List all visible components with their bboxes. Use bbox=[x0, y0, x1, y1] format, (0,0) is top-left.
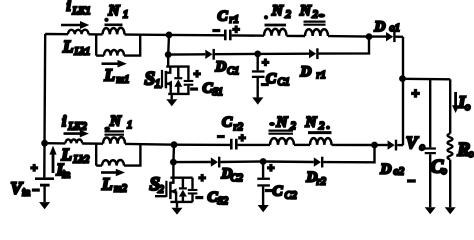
wire node2 to DC2 bbox=[173, 161, 210, 164]
junction node before Do2 bbox=[371, 142, 378, 149]
wire node to Do2 bbox=[375, 144, 388, 146]
svg-text:2: 2 bbox=[286, 10, 292, 21]
svg-text:o: o bbox=[420, 142, 425, 153]
svg-text:−: − bbox=[266, 183, 273, 197]
svg-text:+: + bbox=[199, 170, 206, 184]
core bar N2 first phase1 bbox=[265, 24, 287, 27]
wire phase2 main bus left segment bbox=[45, 142, 66, 145]
svg-text:o2: o2 bbox=[394, 167, 405, 178]
svg-text:+: + bbox=[194, 66, 201, 80]
svg-text:C: C bbox=[222, 114, 233, 130]
svg-text:N: N bbox=[271, 3, 284, 19]
capacitor C_C2 plate bottom bbox=[257, 184, 270, 186]
wire node1 to Cr1 bbox=[169, 34, 224, 37]
inductor L_LK2 bbox=[65, 139, 82, 143]
switch S2: wire node2 down to top rail bbox=[172, 162, 174, 178]
diode D_o2 bbox=[388, 140, 395, 149]
junction node2 phase1 bbox=[165, 51, 172, 58]
core bar lower N1 phase2 bbox=[105, 134, 125, 136]
ground below C_o bbox=[425, 207, 436, 214]
transistor S1 source lead with arrow bbox=[166, 82, 171, 84]
svg-text:−: − bbox=[191, 82, 198, 96]
transistor S1 gate lead bbox=[154, 86, 162, 88]
svg-text:C2: C2 bbox=[285, 190, 298, 201]
junction node1 phase1 bbox=[166, 32, 173, 39]
svg-text:L: L bbox=[101, 174, 112, 193]
svg-text:Lk1: Lk1 bbox=[74, 46, 91, 57]
svg-text:+: + bbox=[412, 87, 420, 102]
transistor S1 gate bar bbox=[161, 70, 163, 88]
core bar lower N2 first phase2 bbox=[269, 133, 294, 135]
svg-text:−: − bbox=[218, 130, 225, 144]
winding N2 second phase2 bbox=[310, 138, 332, 145]
transistor S2 gate bar bbox=[165, 181, 167, 197]
svg-text:2: 2 bbox=[291, 121, 297, 132]
transistor S2 source lead with arrow bbox=[170, 190, 176, 192]
wire Lm2 to loop right vertical bbox=[124, 144, 140, 166]
svg-text:S: S bbox=[145, 68, 156, 89]
capacitor C_S2 bbox=[191, 178, 193, 189]
polarity dot N2 second phase2 bbox=[326, 125, 330, 129]
capacitor C_r1 plate right bbox=[229, 30, 232, 41]
core bar N1 phase1 bbox=[105, 23, 123, 26]
svg-text:+: + bbox=[268, 160, 275, 174]
svg-text:+: + bbox=[31, 160, 38, 174]
switch S1: wire node2 down to top rail bbox=[167, 55, 169, 67]
core bar upper N2 second phase1 bbox=[304, 21, 326, 23]
wire Lm2 bottom branch bbox=[96, 164, 102, 166]
ground below V_in bbox=[39, 202, 50, 209]
svg-text:V: V bbox=[406, 133, 419, 152]
svg-text:i: i bbox=[62, 114, 67, 130]
svg-text:2: 2 bbox=[319, 121, 325, 132]
core bar upper N1 phase2 bbox=[105, 130, 125, 132]
wire node to Do1 bbox=[369, 35, 386, 37]
svg-text:LK1: LK1 bbox=[72, 6, 91, 17]
wire L_LK2 to transformer loop bbox=[82, 142, 103, 145]
capacitor C_C1 stem top bbox=[257, 54, 259, 70]
transistor S2 channel bar bbox=[169, 182, 172, 199]
wire node1 to Cr2 bbox=[174, 143, 230, 146]
svg-text:+: + bbox=[239, 131, 246, 145]
capacitor C_o plate bottom bbox=[425, 152, 436, 154]
svg-text:o: o bbox=[465, 102, 470, 113]
svg-text:D: D bbox=[300, 64, 312, 80]
junction node1 phase2 bbox=[171, 141, 178, 148]
winding N2 first phase2 bbox=[270, 138, 294, 145]
wire Vin to ground bbox=[43, 187, 45, 203]
label L_m2 with arrow bbox=[101, 171, 116, 174]
wire Lm1 to loop right vertical bbox=[124, 35, 140, 56]
wire CC2 node to Dr2 bbox=[263, 160, 314, 163]
diode D_o1 bbox=[386, 32, 393, 41]
wire Lm1 bottom branch bbox=[96, 54, 104, 56]
junction node input tap phase2 bbox=[41, 140, 48, 147]
capacitor C_r1 plate left bbox=[224, 30, 227, 41]
body diode of S2 bbox=[182, 178, 184, 190]
wire Cr1 to N2a phase1 bbox=[232, 34, 264, 37]
transistor S2 gate lead bbox=[155, 195, 166, 197]
svg-text:D: D bbox=[215, 59, 227, 75]
wire R_o lower lead bbox=[449, 160, 451, 208]
winding N1 phase2 bbox=[103, 137, 125, 144]
wire Dr2 to riser bbox=[323, 145, 374, 162]
svg-text:−: − bbox=[196, 191, 203, 205]
svg-text:−: − bbox=[408, 174, 416, 189]
transistor S2 drain lead bbox=[170, 178, 173, 183]
winding N2 first phase1 bbox=[264, 29, 287, 36]
core bar lower N2 second phase1 bbox=[304, 24, 326, 26]
wire N1 to node1 phase2 bbox=[125, 143, 174, 146]
svg-text:m1: m1 bbox=[117, 75, 130, 86]
svg-text:N: N bbox=[108, 3, 121, 19]
capacitor C_C1 plate top bbox=[252, 70, 265, 72]
wire CC1 node to Dr1 bbox=[258, 53, 309, 56]
svg-text:Lk2: Lk2 bbox=[73, 154, 91, 165]
ground below C_C1 bbox=[252, 97, 263, 104]
svg-text:N: N bbox=[276, 114, 289, 130]
svg-text:1: 1 bbox=[123, 9, 128, 20]
wire Dr1 to riser bbox=[319, 37, 369, 54]
svg-text:C2: C2 bbox=[231, 173, 244, 184]
diode D_r1 bbox=[309, 49, 316, 58]
transistor S1 channel bar bbox=[165, 71, 168, 88]
svg-text:L: L bbox=[62, 37, 73, 56]
svg-text:L: L bbox=[104, 65, 115, 84]
capacitor C_o plate top bbox=[425, 147, 436, 149]
winding N1 phase1 bbox=[103, 28, 125, 35]
junction node before Do1 bbox=[366, 33, 373, 40]
core bar upper N2 first phase2 bbox=[269, 130, 294, 132]
svg-text:−: − bbox=[213, 24, 220, 38]
label L_m1 with arrow bbox=[102, 62, 118, 65]
wire loop left vertical (Lm2 branch) bbox=[95, 144, 97, 166]
wire node2 to DC1 bbox=[168, 53, 205, 56]
svg-text:C1: C1 bbox=[278, 77, 290, 88]
svg-text:N: N bbox=[299, 3, 312, 19]
wire C_o upper lead bbox=[429, 79, 431, 147]
svg-text:1: 1 bbox=[155, 79, 160, 90]
capacitor C_r2 plate right bbox=[235, 139, 238, 150]
wire DC1 to CC1 node bbox=[215, 53, 258, 56]
switch S1 top rail bbox=[166, 65, 189, 67]
svg-text:N: N bbox=[109, 113, 122, 129]
current arrow I_in bbox=[52, 153, 55, 174]
switch S2 top rail bbox=[170, 176, 192, 178]
svg-text:r2: r2 bbox=[317, 177, 327, 188]
ground below R_o bbox=[445, 207, 456, 214]
polarity dot N2 first phase1 bbox=[264, 15, 268, 19]
svg-text:S2: S2 bbox=[218, 196, 229, 207]
diode D_C1 bbox=[205, 50, 212, 59]
polarity dot N1 phase2 bbox=[104, 127, 110, 131]
capacitor C_S1 bbox=[187, 67, 189, 80]
capacitor C_r2 plate left bbox=[230, 139, 233, 150]
current arrow I_o bbox=[454, 92, 457, 106]
svg-text:S1: S1 bbox=[213, 87, 224, 98]
polarity dot N1 phase1 bbox=[104, 18, 108, 22]
svg-text:o1: o1 bbox=[390, 23, 401, 34]
wire node1 down to node2 phase1 bbox=[167, 35, 170, 55]
inductor L_LK1 bbox=[68, 30, 89, 34]
svg-text:2: 2 bbox=[159, 185, 165, 196]
wire N2b to Do2 node bbox=[332, 144, 375, 147]
wire N2a to N2b phase1 bbox=[287, 35, 306, 37]
svg-text:i: i bbox=[67, 0, 72, 15]
svg-text:in: in bbox=[62, 169, 70, 180]
inductor L_m1 bbox=[104, 50, 124, 56]
junction node2 phase2 bbox=[170, 159, 177, 166]
resistor R_o zigzag bbox=[448, 134, 453, 160]
diode D_C2 bbox=[211, 157, 218, 166]
svg-text:+: + bbox=[262, 55, 269, 69]
capacitor C_C2 plate top bbox=[257, 178, 270, 180]
capacitor C_C2 stem bottom bbox=[262, 187, 264, 205]
svg-text:C1: C1 bbox=[227, 66, 239, 77]
wire R_o upper lead bbox=[449, 79, 451, 133]
ground below S2 bbox=[176, 202, 178, 208]
polarity dot N2 second phase1 bbox=[318, 13, 326, 17]
svg-text:C: C bbox=[218, 8, 229, 24]
body diode of S1 bbox=[177, 67, 179, 80]
ground below S1 bbox=[170, 94, 172, 99]
wire left input vertical bbox=[43, 34, 46, 178]
junction node C_C2 tap bbox=[260, 158, 267, 165]
transistor S1 drain lead bbox=[166, 67, 170, 73]
wire DC2 to CC2 node bbox=[220, 160, 263, 163]
capacitor C_C1 plate bottom bbox=[252, 76, 265, 78]
svg-text:C: C bbox=[273, 183, 284, 199]
wire N2a to N2b phase2 bbox=[294, 144, 310, 146]
wire L_LK1 to transformer loop bbox=[89, 33, 103, 36]
switch S1 bottom rail bbox=[168, 93, 189, 95]
wire loop left vertical (Lm1 branch) bbox=[95, 34, 97, 55]
svg-text:o: o bbox=[469, 149, 474, 160]
core bar N2 second phase2 bbox=[308, 131, 332, 134]
wire output rail vertical bbox=[402, 37, 404, 145]
svg-text:+: + bbox=[233, 22, 240, 36]
svg-text:D: D bbox=[374, 19, 386, 35]
voltage source V_in plate long bbox=[35, 177, 54, 180]
wire C_o lower lead bbox=[429, 154, 431, 207]
junction node output tap bbox=[399, 75, 406, 82]
svg-text:in: in bbox=[22, 187, 30, 198]
switch S2 bottom rail bbox=[170, 201, 192, 203]
wire Do1 to output rail corner bbox=[396, 36, 403, 38]
voltage source V_in plate short bbox=[40, 184, 50, 187]
svg-text:LK2: LK2 bbox=[68, 122, 88, 133]
polarity dot N2 first phase2 bbox=[269, 122, 275, 126]
svg-text:D: D bbox=[380, 161, 392, 177]
capacitor C_C1 stem bottom bbox=[257, 78, 259, 97]
wire output top to load bbox=[403, 78, 451, 81]
inductor L_m2 bbox=[102, 160, 124, 166]
svg-text:N: N bbox=[305, 114, 318, 130]
winding N2 second phase1 bbox=[305, 29, 328, 36]
svg-text:1: 1 bbox=[127, 120, 132, 131]
svg-text:m2: m2 bbox=[114, 184, 128, 195]
wire Cr2 to N2a phase2 bbox=[238, 144, 270, 146]
svg-text:r1: r1 bbox=[317, 70, 326, 81]
diode D_r2 bbox=[314, 157, 321, 166]
capacitor C_C2 stem top bbox=[262, 162, 264, 178]
wire phase1 main bus left segment bbox=[45, 33, 68, 36]
svg-text:−: − bbox=[33, 183, 40, 197]
junction node C_C1 tap bbox=[254, 51, 261, 58]
svg-text:2: 2 bbox=[313, 10, 319, 21]
wire N1 to node1 phase1 bbox=[125, 33, 170, 36]
wire node1 down to node2 phase2 bbox=[172, 145, 175, 162]
svg-text:o: o bbox=[442, 166, 447, 177]
ground below C_C2 bbox=[258, 205, 269, 212]
wire Do2 to output rail corner bbox=[397, 144, 403, 146]
svg-text:−: − bbox=[262, 78, 269, 92]
wire N2b to Do1 node bbox=[328, 35, 369, 38]
